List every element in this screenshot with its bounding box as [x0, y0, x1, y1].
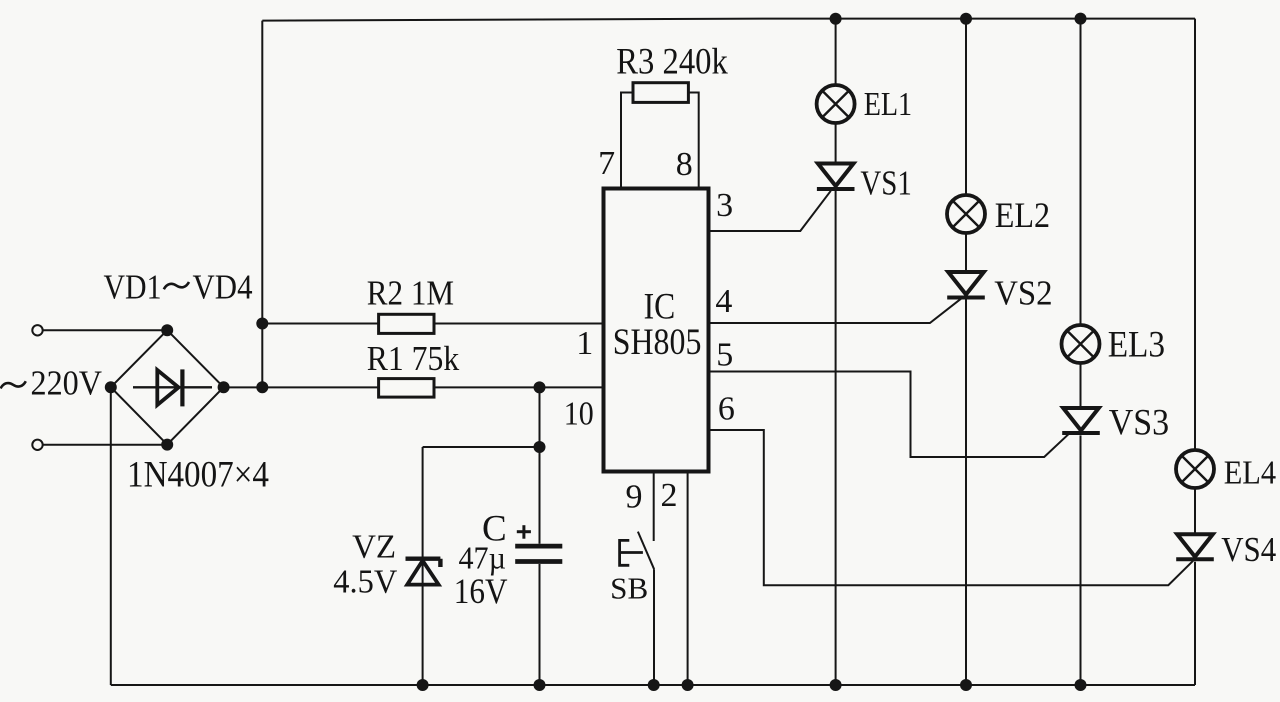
svg-text:VD1: VD1 — [104, 268, 162, 307]
svg-text:VD4: VD4 — [193, 268, 253, 307]
svg-text:1: 1 — [576, 325, 593, 362]
svg-text:6: 6 — [718, 390, 735, 427]
svg-text:SB: SB — [610, 570, 648, 605]
svg-text:4: 4 — [715, 283, 732, 320]
svg-text:VZ: VZ — [352, 529, 396, 566]
svg-text:VS1: VS1 — [860, 163, 911, 202]
svg-text:2: 2 — [661, 477, 678, 514]
svg-text:SH805: SH805 — [613, 322, 702, 363]
svg-text:VS4: VS4 — [1221, 530, 1276, 569]
svg-text:16V: 16V — [454, 571, 508, 611]
svg-text:4.5V: 4.5V — [333, 564, 397, 601]
svg-text:1N4007×4: 1N4007×4 — [127, 455, 269, 496]
svg-text:220V: 220V — [31, 364, 103, 403]
svg-text:R2 1M: R2 1M — [367, 274, 454, 313]
svg-text:EL2: EL2 — [995, 195, 1050, 235]
svg-text:EL3: EL3 — [1108, 325, 1165, 366]
svg-text:R1 75k: R1 75k — [367, 339, 460, 378]
svg-text:9: 9 — [626, 479, 643, 516]
svg-text:3: 3 — [716, 187, 733, 224]
svg-text:EL4: EL4 — [1224, 454, 1276, 491]
svg-text:R3 240k: R3 240k — [616, 42, 728, 83]
svg-text:10: 10 — [564, 396, 594, 433]
svg-text:EL1: EL1 — [864, 86, 912, 123]
svg-text:7: 7 — [598, 145, 615, 182]
svg-text:VS3: VS3 — [1109, 403, 1169, 444]
svg-text:5: 5 — [716, 336, 733, 373]
svg-text:8: 8 — [676, 146, 693, 183]
svg-text:VS2: VS2 — [994, 274, 1052, 313]
